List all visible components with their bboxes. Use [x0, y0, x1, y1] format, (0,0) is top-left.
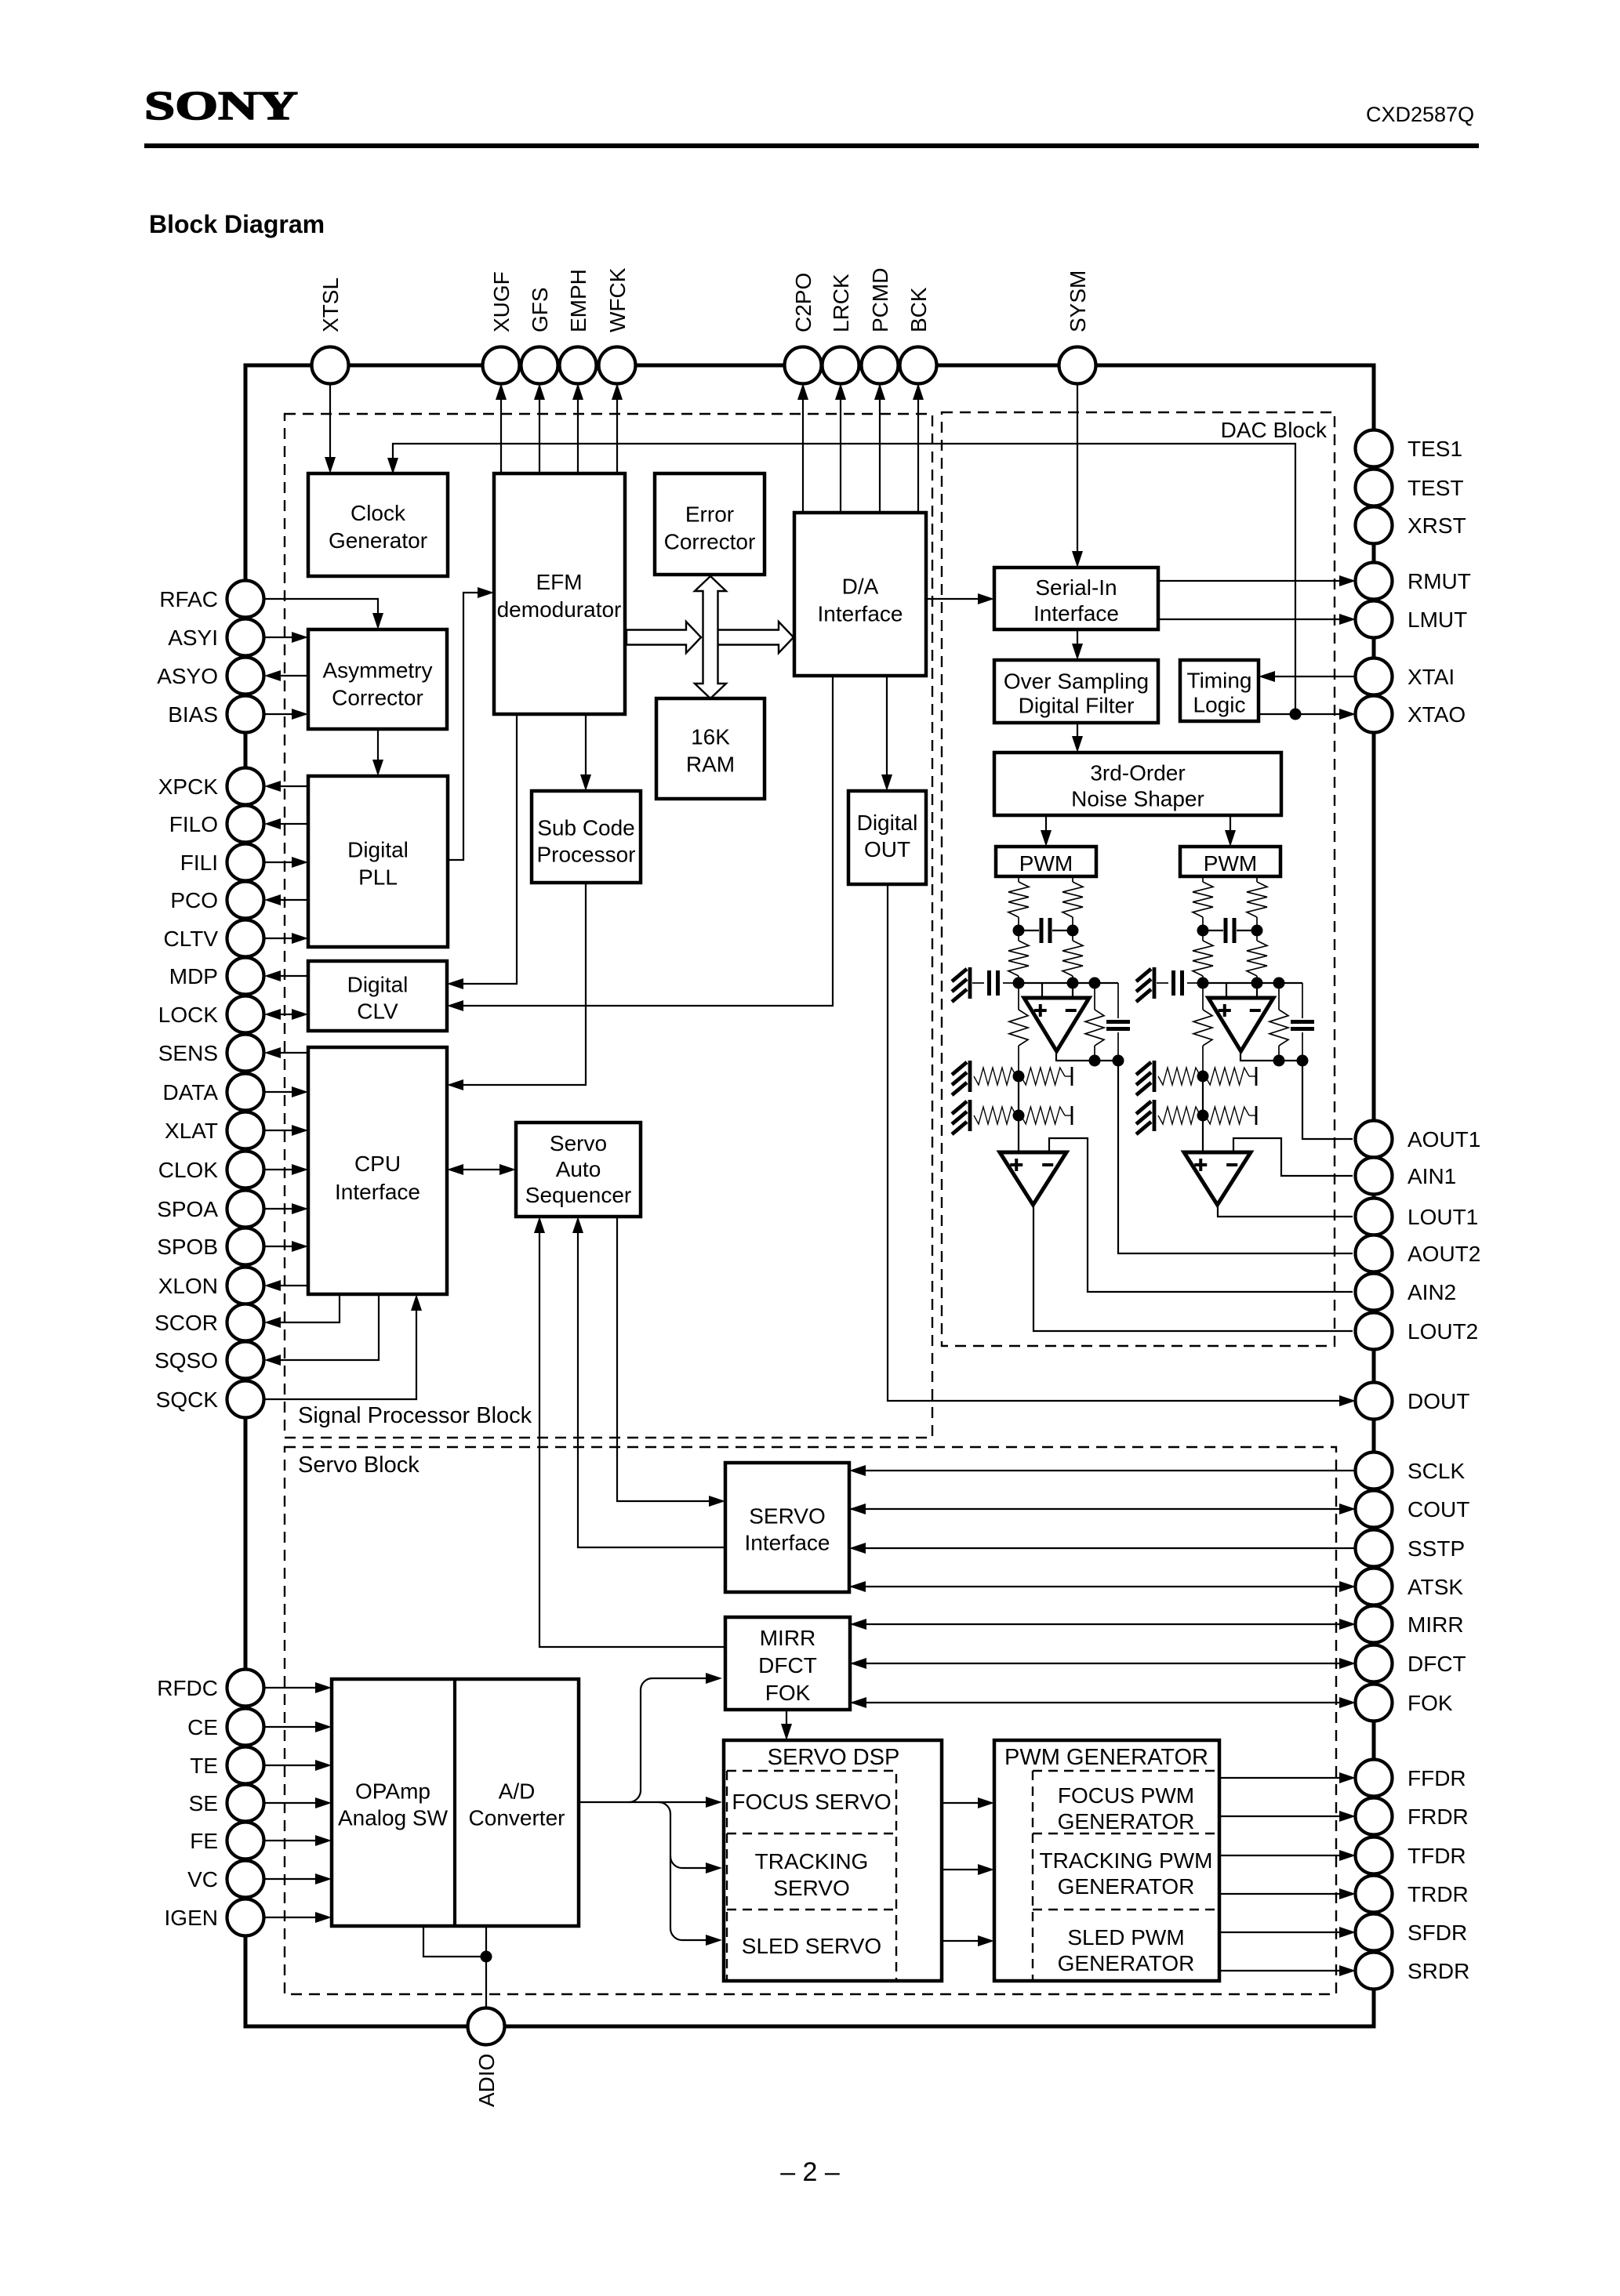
second op-amp output wire to LOUT [1033, 1205, 1353, 1331]
wire SE input to OPAmp Analog SW [264, 1802, 329, 1804]
resistor row2 left [1158, 1107, 1200, 1124]
wire XTAO feedback to Clock Generator [393, 444, 1295, 714]
svg-text:FRDR: FRDR [1408, 1805, 1469, 1829]
second op-amp output wire to LOUT [1218, 1205, 1353, 1217]
wire divider to second op-amp [1018, 1076, 1019, 1152]
svg-text:COUT: COUT [1408, 1497, 1469, 1522]
wire Digital PLL to EFM demodurator [448, 593, 491, 860]
resistor vertical upper right col x=1368 [1062, 882, 1083, 917]
pin VC [227, 1861, 264, 1898]
block 16K RAM [656, 698, 765, 799]
pin LOUT2 [1356, 1313, 1393, 1350]
PWM GENERATOR dashed divider 2 [1033, 1909, 1219, 1910]
svg-text:LOCK: LOCK [158, 1003, 219, 1027]
pin TFDR [1356, 1837, 1393, 1874]
resistor vertical lower right col x=1603 [1256, 930, 1258, 941]
resistor vertical upper left col x=1299 [1008, 882, 1029, 917]
resistor row2 right [1021, 1107, 1065, 1124]
hollow double arrow Error Corrector to 16K RAM [695, 576, 726, 698]
svg-text:Corrector: Corrector [664, 530, 756, 554]
svg-text:GENERATOR: GENERATOR [1058, 1874, 1195, 1899]
resistor divider column below node [1202, 983, 1204, 1010]
svg-text:CPU: CPU [354, 1152, 401, 1176]
pin LOCK [227, 996, 264, 1033]
wire SYSM to Serial-In Interface [1077, 383, 1078, 564]
wire SQCK to CPU Interface [264, 1297, 416, 1399]
wire OPAmp branch to ADIO line [423, 1926, 486, 1957]
block SERVO Interface [725, 1463, 849, 1592]
header rule [144, 143, 1479, 148]
pin XUGF [483, 347, 520, 384]
wire FOCUS SERVO to FOCUS PWM GENERATOR [942, 1802, 991, 1804]
svg-text:XLON: XLON [158, 1274, 218, 1298]
svg-text:XRST: XRST [1408, 513, 1466, 538]
first stage output wire to AOUT [1302, 1061, 1353, 1139]
wire MIRR DFCT FOK to DFCT [850, 1663, 1353, 1664]
svg-text:Servo Block: Servo Block [298, 1453, 420, 1478]
pin LMUT [1356, 601, 1393, 638]
block SERVO DSP [724, 1740, 942, 1981]
svg-text:Corrector: Corrector [332, 686, 423, 710]
pin TEST [1356, 470, 1393, 506]
wire SERVO Interface to ATSK [849, 1586, 1353, 1587]
svg-text:DFCT: DFCT [1408, 1652, 1466, 1676]
svg-text:PWM: PWM [1204, 851, 1257, 876]
wire Digital OUT to DOUT [888, 884, 1353, 1401]
svg-text:DATA: DATA [162, 1080, 218, 1104]
wire CLTV input [264, 938, 306, 939]
resistor vertical upper right col x=1603 [1247, 882, 1267, 917]
block PWM right [1180, 847, 1280, 876]
wire Serial-In Interface to LMUT [1158, 618, 1353, 620]
resistor row1 right [1205, 1068, 1249, 1085]
svg-text:Noise Shaper: Noise Shaper [1071, 787, 1204, 811]
svg-text:BIAS: BIAS [168, 702, 218, 727]
pin FRDR [1356, 1798, 1393, 1835]
svg-text:TRACKING PWM: TRACKING PWM [1040, 1848, 1213, 1873]
wire Digital CLV to MDP [267, 975, 308, 977]
pin ATSK [1356, 1569, 1393, 1605]
svg-text:VC: VC [187, 1867, 218, 1892]
wire FILI input [264, 861, 306, 863]
capacitor between columns [1019, 930, 1039, 931]
pin RFDC [227, 1670, 264, 1707]
pin SFDR [1356, 1914, 1393, 1951]
wire BIAS input [264, 713, 306, 715]
block Asymmetry Corrector [308, 629, 447, 729]
block PWM left [996, 847, 1096, 876]
wire CLOK input [264, 1169, 306, 1170]
resistor vertical upper left col x=1534 [1193, 882, 1213, 917]
wire EFM demodurator to Digital CLV [450, 714, 517, 984]
pin TE [227, 1747, 264, 1784]
pin SQSO [227, 1342, 264, 1379]
resistor row1 left [1158, 1068, 1200, 1085]
wire Over Sampling Digital Filter to 3rd-Order Noise Shaper [1077, 723, 1078, 749]
wire FOCUS PWM GENERATOR to FRDR [1219, 1815, 1353, 1817]
SERVO DSP inner dashed box [727, 1771, 896, 1980]
svg-text:XLAT: XLAT [165, 1119, 218, 1143]
svg-text:XPCK: XPCK [158, 774, 219, 799]
wire TRACKING PWM GENERATOR to TFDR [1219, 1855, 1353, 1856]
wire A/D branch to MIRR DFCT FOK [629, 1678, 719, 1802]
svg-text:Converter: Converter [469, 1806, 565, 1830]
wire XTSL to Clock Generator [329, 383, 331, 470]
wire divider to second op-amp [1202, 1076, 1204, 1152]
wire VC input to OPAmp Analog SW [264, 1878, 329, 1880]
svg-text:DFCT: DFCT [758, 1653, 817, 1678]
wire CPU Interface to SQSO [267, 1294, 379, 1360]
junction dot ADIO line [481, 1951, 492, 1963]
svg-text:SONY: SONY [144, 84, 298, 129]
svg-text:PCMD: PCMD [868, 268, 892, 332]
feedback capacitor right of op-amp [1117, 983, 1119, 1018]
PWM GENERATOR inner dashed box [1033, 1771, 1219, 1980]
hollow arrow EFM demodurator to RAM bus [627, 622, 701, 653]
block CPU Interface [308, 1047, 447, 1294]
pin AIN1 [1356, 1158, 1393, 1195]
input capacitor from ground [972, 982, 984, 984]
svg-text:D/A: D/A [842, 575, 879, 599]
block PWM GENERATOR [994, 1740, 1219, 1981]
svg-text:RAM: RAM [686, 753, 735, 777]
svg-text:CLTV: CLTV [164, 927, 219, 951]
svg-text:RMUT: RMUT [1408, 569, 1471, 593]
wire A/D Converter to ADIO [485, 1926, 487, 2008]
svg-text:MDP: MDP [169, 964, 218, 988]
resistor row1 right [1021, 1068, 1065, 1085]
feedback resistor right of op-amp [1094, 983, 1095, 1010]
svg-text:demodurator: demodurator [497, 597, 622, 622]
svg-text:FFDR: FFDR [1408, 1766, 1466, 1790]
svg-text:Timing: Timing [1187, 669, 1252, 693]
wire PWM output left column x=1534 [1202, 876, 1204, 882]
svg-text:Servo: Servo [550, 1131, 607, 1155]
block Error Corrector [655, 473, 765, 575]
wire EFM demodurator to WFCK [616, 386, 618, 473]
svg-text:FOK: FOK [1408, 1691, 1453, 1715]
pin TES1 [1356, 430, 1393, 467]
svg-text:PCO: PCO [170, 888, 218, 912]
wire D/A Interface to BCK [917, 386, 919, 513]
SERVO DSP dashed divider 2 [727, 1909, 896, 1910]
wire SCLK to SERVO Interface [852, 1470, 1356, 1471]
terminal tick row1 [1255, 1067, 1258, 1086]
wire SERVO Interface to COUT [849, 1508, 1353, 1510]
wire 3rd-Order Noise Shaper to right PWM [1230, 815, 1231, 843]
svg-text:Clock: Clock [351, 501, 406, 525]
block Clock Generator [308, 473, 448, 576]
wire SSTP to SERVO Interface [852, 1547, 1356, 1549]
svg-text:FILI: FILI [180, 851, 218, 875]
pin FILO [227, 806, 264, 843]
svg-text:Digital: Digital [857, 811, 918, 835]
wire CPU Interface to SENS [267, 1052, 308, 1054]
svg-text:TFDR: TFDR [1408, 1844, 1466, 1868]
svg-text:MIRR: MIRR [1408, 1612, 1464, 1637]
wire IGEN input to OPAmp Analog SW [264, 1917, 329, 1918]
svg-text:DAC Block: DAC Block [1221, 418, 1328, 442]
block 3rd-Order Noise Shaper [994, 753, 1281, 815]
svg-text:ASYI: ASYI [168, 626, 218, 650]
svg-text:A/D: A/D [499, 1779, 536, 1804]
wire D/A Interface to LRCK [840, 386, 841, 513]
resistor divider column below node [1018, 983, 1019, 1010]
hollow arrow RAM bus to D/A Interface [717, 622, 794, 653]
Servo Block dashed border [285, 1447, 1336, 1994]
pin SENS [227, 1035, 264, 1072]
pin XTSL [312, 347, 349, 384]
SERVO DSP dashed divider 1 [727, 1833, 896, 1834]
block Digital OUT [848, 791, 926, 884]
svg-text:IGEN: IGEN [165, 1906, 218, 1930]
svg-text:– 2 –: – 2 – [780, 2157, 840, 2187]
svg-text:RFDC: RFDC [157, 1676, 218, 1700]
pin SQCK [227, 1381, 264, 1418]
svg-text:C2PO: C2PO [791, 273, 815, 332]
svg-text:Error: Error [685, 502, 734, 527]
ground row2 [1153, 1100, 1157, 1131]
wire PWM output left column x=1299 [1018, 876, 1019, 882]
wire CE input to OPAmp Analog SW [264, 1726, 329, 1728]
wire TE input to OPAmp Analog SW [264, 1765, 329, 1766]
svg-text:Interface: Interface [818, 602, 903, 626]
svg-text:Processor: Processor [536, 843, 635, 867]
op-amp output node [1240, 1051, 1302, 1061]
op-amp second stage [1000, 1152, 1066, 1205]
node row wire [1203, 982, 1302, 984]
resistor vertical lower right col x=1368 [1072, 930, 1073, 941]
wire ASYI input [264, 637, 306, 638]
wire Servo Auto Sequencer output to SERVO Interface [617, 1217, 722, 1501]
wire Sub Code Processor to CPU Interface [450, 883, 586, 1085]
wire SPOA input [264, 1208, 306, 1210]
svg-text:Digital: Digital [347, 838, 409, 862]
svg-text:GENERATOR: GENERATOR [1058, 1809, 1195, 1834]
pin GFS [521, 347, 558, 384]
op-amp first stage [1041, 983, 1043, 998]
svg-text:TRACKING: TRACKING [755, 1849, 869, 1873]
wire XTAI to Timing Logic [1262, 676, 1356, 677]
pin AOUT1 [1356, 1121, 1393, 1158]
svg-text:SYSM: SYSM [1066, 270, 1090, 332]
pin FE [227, 1823, 264, 1859]
pin ASYO [227, 658, 264, 695]
svg-text:SENS: SENS [158, 1041, 218, 1065]
pin RFAC [227, 581, 264, 618]
svg-text:SERVO: SERVO [773, 1876, 850, 1900]
pin LOUT1 [1356, 1199, 1393, 1235]
svg-text:OPAmp: OPAmp [355, 1779, 430, 1804]
op-amp second stage [1184, 1152, 1251, 1205]
svg-text:AOUT1: AOUT1 [1408, 1127, 1480, 1152]
op-amp output node [1056, 1051, 1118, 1061]
wire MIRR DFCT FOK to SERVO DSP [786, 1710, 787, 1737]
svg-text:FOCUS SERVO: FOCUS SERVO [732, 1790, 891, 1814]
pin FFDR [1356, 1760, 1393, 1797]
pin BCK [900, 347, 937, 384]
svg-text:XTSL: XTSL [318, 277, 343, 332]
pin AIN2 [1356, 1274, 1393, 1311]
divider OPAmp / A/D [453, 1679, 456, 1926]
resistor vertical lower left col x=1534 [1202, 930, 1204, 941]
pin AOUT2 [1356, 1235, 1393, 1272]
wire TRACKING PWM GENERATOR to TRDR [1219, 1893, 1353, 1895]
svg-text:DOUT: DOUT [1408, 1389, 1469, 1413]
pin SYSM [1059, 347, 1096, 384]
pin XTAI [1356, 658, 1393, 695]
junction dots upper [1197, 925, 1209, 937]
block Sub Code Processor [532, 791, 641, 883]
svg-text:FOCUS PWM: FOCUS PWM [1058, 1783, 1194, 1808]
ground left of op-amp [1153, 967, 1157, 999]
wire D/A Interface to Serial-In Interface [926, 598, 991, 600]
pin CLOK [227, 1152, 264, 1188]
wire EFM demodurator to XUGF [500, 386, 502, 473]
svg-text:CXD2587Q: CXD2587Q [1366, 103, 1474, 126]
block Servo Auto Sequencer [516, 1123, 641, 1217]
wire SERVO Interface to Servo Auto Sequencer [578, 1220, 725, 1547]
svg-text:CE: CE [187, 1715, 218, 1739]
ground left of op-amp [968, 967, 972, 999]
svg-text:SQCK: SQCK [156, 1387, 219, 1412]
svg-text:Signal Processor Block: Signal Processor Block [298, 1403, 532, 1428]
block Timing Logic [1180, 660, 1259, 721]
svg-text:SQSO: SQSO [154, 1348, 218, 1373]
svg-text:SRDR: SRDR [1408, 1959, 1469, 1983]
node row wire [1019, 982, 1118, 984]
input capacitor from ground [1157, 982, 1168, 984]
wire Asymmetry Corrector to Digital PLL [377, 729, 379, 773]
pin XRST [1356, 507, 1393, 544]
wire CPU Interface to SCOR [267, 1294, 340, 1322]
svg-text:XTAO: XTAO [1408, 702, 1466, 727]
wire LOCK bidirectional [267, 1014, 306, 1015]
svg-text:AIN1: AIN1 [1408, 1164, 1456, 1188]
svg-text:LRCK: LRCK [829, 274, 853, 332]
svg-text:TE: TE [190, 1754, 218, 1778]
svg-text:ADIO: ADIO [474, 2054, 499, 2107]
svg-text:Interface: Interface [745, 1531, 830, 1555]
svg-text:TEST: TEST [1408, 476, 1464, 500]
pin DOUT [1356, 1383, 1393, 1420]
svg-text:SPOA: SPOA [157, 1197, 218, 1221]
pin EMPH [560, 347, 597, 384]
wire A/D Converter to FOCUS SERVO [579, 1801, 719, 1803]
block OPAmp Analog SW and A/D Converter [332, 1679, 579, 1926]
wire Serial-In Interface to Over Sampling Digital Filter [1077, 629, 1078, 657]
svg-text:ATSK: ATSK [1408, 1575, 1463, 1599]
wire FILO output [267, 823, 308, 825]
resistor row2 left [974, 1107, 1016, 1124]
svg-text:CLV: CLV [357, 999, 398, 1024]
svg-text:Asymmetry: Asymmetry [323, 658, 433, 683]
junction dots upper [1013, 925, 1025, 937]
svg-text:SE: SE [189, 1791, 218, 1815]
svg-text:Logic: Logic [1193, 693, 1246, 717]
pin FOK [1356, 1685, 1393, 1721]
svg-text:Serial-In: Serial-In [1035, 575, 1117, 600]
chip boundary [245, 365, 1374, 2026]
wire D/A Interface to Digital CLV [450, 676, 833, 1006]
svg-text:SCLK: SCLK [1408, 1459, 1465, 1483]
svg-text:XUGF: XUGF [489, 271, 514, 332]
svg-text:EFM: EFM [536, 570, 582, 594]
wire SLED SERVO to SLED PWM GENERATOR [942, 1940, 991, 1942]
svg-text:Digital Filter: Digital Filter [1019, 694, 1135, 718]
block Digital CLV [308, 961, 447, 1031]
svg-text:16K: 16K [691, 725, 730, 749]
second op-amp inverting input wire [1233, 1138, 1353, 1176]
wire FE input to OPAmp Analog SW [264, 1840, 329, 1841]
wire D/A Interface to C2PO [802, 386, 804, 513]
block Over Sampling Digital Filter [994, 660, 1158, 723]
svg-text:AIN2: AIN2 [1408, 1280, 1456, 1304]
wire EFM demodurator to EMPH [577, 386, 579, 473]
svg-text:GENERATOR: GENERATOR [1058, 1951, 1195, 1975]
terminal tick row1 [1071, 1067, 1073, 1086]
svg-text:OUT: OUT [864, 837, 910, 861]
terminal tick row2 [1255, 1106, 1258, 1125]
terminal tick row2 [1071, 1106, 1073, 1125]
wire SLED PWM GENERATOR to SRDR [1219, 1970, 1353, 1971]
svg-text:SLED SERVO: SLED SERVO [742, 1934, 881, 1958]
pin CLTV [227, 920, 264, 957]
wire MIRR DFCT FOK to MIRR [850, 1623, 1353, 1625]
ground row2 [968, 1100, 972, 1131]
svg-text:Block Diagram: Block Diagram [149, 210, 325, 238]
pin DFCT [1356, 1645, 1393, 1682]
svg-text:3rd-Order: 3rd-Order [1090, 761, 1185, 785]
wire EFM demodurator to GFS [539, 386, 540, 473]
block D/A Interface [794, 513, 926, 676]
pin MDP [227, 958, 264, 995]
wire DATA input [264, 1091, 306, 1093]
wire PCO output [267, 899, 308, 901]
pin IGEN [227, 1899, 264, 1936]
svg-text:LMUT: LMUT [1408, 608, 1467, 632]
pin RMUT [1356, 563, 1393, 600]
svg-text:LOUT1: LOUT1 [1408, 1205, 1478, 1229]
wire SPOB input [264, 1246, 306, 1247]
pin SSTP [1356, 1530, 1393, 1567]
svg-text:SPOB: SPOB [157, 1235, 218, 1259]
Signal Processor Block dashed border [285, 414, 932, 1438]
block Serial-In Interface [994, 568, 1158, 629]
wire 3rd-Order Noise Shaper to left PWM [1045, 815, 1047, 843]
svg-text:MIRR: MIRR [760, 1626, 816, 1650]
svg-text:AOUT2: AOUT2 [1408, 1242, 1480, 1266]
wire SLED PWM GENERATOR to SFDR [1219, 1931, 1353, 1933]
svg-text:Interface: Interface [1033, 601, 1119, 626]
pin COUT [1356, 1491, 1393, 1528]
wire Timing Logic to XTAO [1259, 713, 1353, 715]
svg-text:SLED PWM: SLED PWM [1067, 1925, 1184, 1950]
svg-text:TES1: TES1 [1408, 437, 1462, 461]
wire XPCK output [267, 785, 308, 787]
wire D/A Interface to PCMD [879, 386, 881, 513]
ground row1 [968, 1061, 972, 1092]
pin XLAT [227, 1112, 264, 1149]
svg-text:XTAI: XTAI [1408, 665, 1455, 689]
svg-text:RFAC: RFAC [159, 587, 218, 611]
junction dot XTAO line [1290, 709, 1302, 720]
pin PCO [227, 882, 264, 919]
svg-text:SCOR: SCOR [154, 1311, 218, 1335]
ground row1 [1153, 1061, 1157, 1092]
pin SCOR [227, 1304, 264, 1341]
pin CE [227, 1709, 264, 1746]
